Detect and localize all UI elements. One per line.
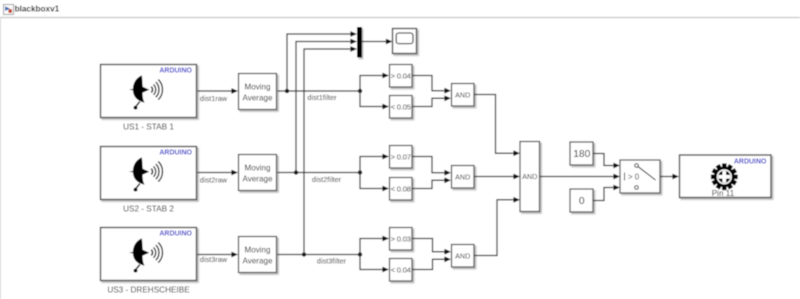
svg-text:dist2filter: dist2filter (312, 175, 342, 184)
compare block GT 0.04 (390, 65, 413, 88)
wire GT 0.04 to AND1 (412, 76, 451, 94)
wire LT 0.05 to AND1 (412, 95, 451, 106)
svg-text:dist2raw: dist2raw (200, 176, 228, 185)
svg-text:ARDUINO: ARDUINO (159, 68, 192, 75)
svg-text:ARDUINO: ARDUINO (159, 231, 192, 238)
svg-text:Moving: Moving (244, 245, 270, 254)
logic block big AND (520, 142, 540, 212)
svg-text:Average: Average (243, 93, 273, 102)
svg-text:dist3filter: dist3filter (317, 256, 347, 265)
wire dist1filter (278, 89, 363, 102)
svg-text:US2 - STAB 2: US2 - STAB 2 (123, 204, 174, 213)
block US2 - STAB 2 (ultrasonic sensor) (101, 147, 197, 214)
svg-text:dist3raw: dist3raw (200, 255, 228, 264)
compare block GT 0.03 (390, 228, 413, 251)
svg-text:AND: AND (455, 90, 470, 99)
logic block AND3 (452, 245, 475, 268)
wire to mux input 1 (287, 31, 357, 91)
svg-text:> 0.04: > 0.04 (391, 72, 411, 81)
svg-text:< 0.04: < 0.04 (391, 266, 411, 275)
logic block AND2 (452, 166, 475, 189)
svg-text:US1 - STAB 1: US1 - STAB 1 (123, 122, 174, 131)
constant block 180 (570, 142, 593, 165)
svg-text:< 0.05: < 0.05 (391, 103, 411, 112)
scope block (393, 29, 417, 54)
svg-text:US3 - DREHSCHEIBE: US3 - DREHSCHEIBE (107, 285, 190, 294)
wire dist2raw (198, 170, 239, 185)
svg-text:0: 0 (579, 196, 585, 207)
svg-text:Pin 11: Pin 11 (712, 189, 735, 198)
wire 0 to switch (594, 185, 621, 201)
switch block (620, 160, 660, 193)
block Moving Average 2 (239, 155, 277, 191)
block Moving Average 1 (239, 74, 277, 110)
svg-text:dist1filter: dist1filter (307, 93, 337, 102)
svg-text:> 0.07: > 0.07 (391, 153, 411, 162)
wire dist1raw (198, 88, 239, 103)
wire branch to compare blocks row1 (360, 73, 389, 110)
svg-text:ARDUINO: ARDUINO (159, 150, 192, 157)
compare block LT 0.05 (390, 96, 413, 119)
wire AND2 to big AND (474, 174, 520, 180)
svg-text:Average: Average (243, 174, 273, 183)
compare block LT 0.04 (390, 259, 413, 282)
svg-text:Moving: Moving (244, 163, 270, 172)
svg-text:ARDUINO: ARDUINO (734, 158, 767, 165)
wire branch to compare blocks row3 (360, 236, 389, 273)
svg-text:blackboxv1: blackboxv1 (15, 5, 60, 14)
title blackboxv1 (15, 5, 60, 14)
wire LT 0.04 to AND3 (412, 256, 451, 269)
svg-text:< 0.08: < 0.08 (391, 185, 411, 194)
wire switch to pin block (660, 174, 679, 180)
svg-text:> 0.03: > 0.03 (391, 235, 411, 244)
wire GT 0.07 to AND2 (412, 157, 451, 176)
compare block LT 0.08 (390, 178, 413, 201)
svg-text:AND: AND (455, 251, 470, 260)
svg-text:Moving: Moving (244, 82, 270, 91)
block US3 - DREHSCHEIBE (ultrasonic sensor) (101, 228, 197, 295)
wire dist2filter (278, 170, 363, 184)
wire dist3raw (198, 252, 239, 264)
block US1 - STAB 1 (ultrasonic sensor) (101, 65, 197, 132)
wire GT 0.03 to AND3 (412, 239, 451, 255)
svg-text:AND: AND (522, 172, 537, 181)
svg-text:AND: AND (455, 172, 470, 181)
svg-text:dist1raw: dist1raw (200, 94, 228, 103)
wire mux to scope (362, 39, 393, 45)
block Arduino PWM Pin 11 (680, 155, 772, 198)
wire to mux input 3 (304, 46, 357, 254)
wire AND1 to big AND (474, 95, 520, 157)
wire 180 to switch (594, 154, 621, 169)
wire AND3 to big AND (474, 197, 520, 256)
wire to mux input 2 (296, 39, 357, 173)
model icon (4, 5, 14, 15)
wire big AND to switch (540, 174, 621, 180)
svg-text:180: 180 (573, 149, 590, 160)
svg-text:> 0: > 0 (628, 173, 640, 182)
block Moving Average 3 (239, 237, 277, 273)
wire LT 0.08 to AND2 (412, 177, 451, 188)
constant block 0 (570, 189, 593, 212)
svg-text:Average: Average (243, 256, 273, 265)
wire branch to compare blocks row2 (360, 154, 389, 192)
logic block AND1 (452, 84, 475, 107)
wire dist3filter (278, 252, 363, 265)
mux (357, 27, 362, 58)
compare block GT 0.07 (390, 146, 413, 169)
